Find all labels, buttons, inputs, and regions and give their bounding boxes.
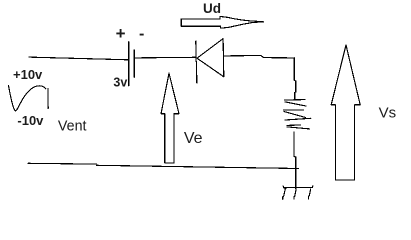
arrow Ud (block arrow pointing right) [181, 16, 263, 28]
wire right vertical upper [294, 58, 296, 100]
svg-text:+10v: +10v [13, 67, 43, 82]
svg-text:Ve: Ve [184, 130, 203, 147]
diode D1 cathode bar [196, 41, 197, 83]
ground hatch left [283, 189, 286, 199]
battery B1 negative plate [133, 50, 135, 77]
diode D1 triangle [197, 39, 224, 77]
wire right vertical lower [294, 132, 296, 189]
svg-text:-10v: -10v [17, 113, 44, 128]
svg-text:-: - [139, 26, 144, 43]
battery B1 positive plate [128, 42, 130, 86]
ground symbol bar [283, 186, 313, 188]
ground hatch right [309, 189, 311, 199]
svg-text:Ud: Ud [203, 1, 221, 16]
wire top rail left [29, 57, 129, 60]
svg-text:Vent: Vent [58, 119, 87, 135]
wire diode to right corner [224, 56, 294, 58]
wire battery to diode [134, 56, 195, 59]
svg-text:Vs: Vs [379, 104, 397, 121]
arrow Ve (block arrow pointing up) [161, 73, 179, 163]
wire bottom rail [28, 163, 299, 168]
source Vent sine wave [8, 85, 45, 110]
ground hatch middle [294, 189, 296, 199]
svg-text:+: + [116, 24, 126, 43]
arrow Vs (block arrow pointing up) [331, 45, 360, 180]
resistor R1 zigzag [285, 99, 306, 101]
source Vent sine end stroke [47, 88, 49, 108]
svg-text:3v: 3v [113, 76, 127, 90]
